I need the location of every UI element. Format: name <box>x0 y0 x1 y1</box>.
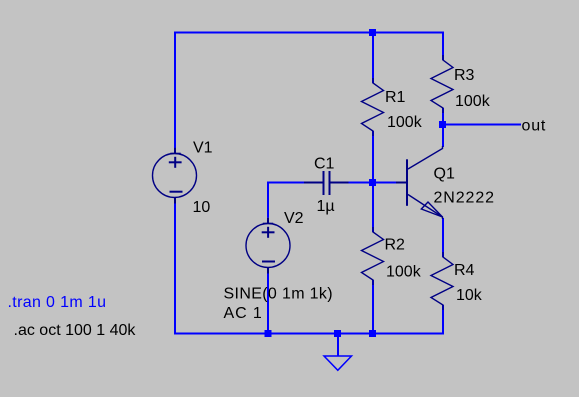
svg-text:V2: V2 <box>284 210 304 227</box>
svg-text:Q1: Q1 <box>434 165 455 182</box>
svg-text:10k: 10k <box>456 287 483 304</box>
svg-text:C1: C1 <box>314 156 335 173</box>
svg-text:100k: 100k <box>387 114 423 131</box>
svg-text:.tran 0 1m 1u: .tran 0 1m 1u <box>8 294 107 311</box>
svg-text:100k: 100k <box>455 93 491 110</box>
svg-text:.ac oct 100 1 40k: .ac oct 100 1 40k <box>14 322 137 339</box>
svg-text:out: out <box>522 118 547 135</box>
svg-text:2N2222: 2N2222 <box>434 190 495 207</box>
svg-text:R3: R3 <box>454 67 475 84</box>
svg-text:R1: R1 <box>385 89 406 106</box>
svg-text:R2: R2 <box>385 236 406 253</box>
svg-text:1µ: 1µ <box>317 198 335 215</box>
svg-text:SINE(0 1m 1k): SINE(0 1m 1k) <box>224 286 333 303</box>
svg-text:AC 1: AC 1 <box>224 305 263 322</box>
svg-text:10: 10 <box>193 199 211 216</box>
svg-text:R4: R4 <box>454 262 475 279</box>
svg-text:100k: 100k <box>386 264 422 281</box>
svg-text:V1: V1 <box>193 140 213 157</box>
